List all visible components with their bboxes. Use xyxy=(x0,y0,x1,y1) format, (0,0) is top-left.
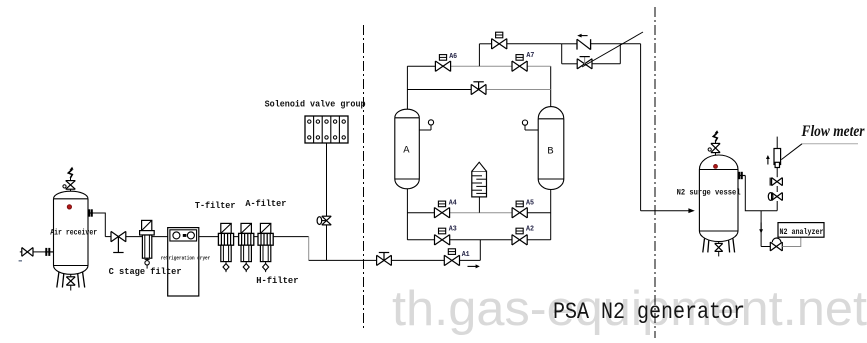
valve solenoid pilot valve xyxy=(317,216,331,225)
wire main line filter train xyxy=(126,236,309,238)
arrow flow down to analyzer xyxy=(759,229,763,233)
diagonal annotation line xyxy=(582,32,643,67)
svg-text:Flow meter: Flow meter xyxy=(801,123,866,140)
tower B xyxy=(538,107,564,190)
filter A-filter xyxy=(239,223,254,272)
tower A xyxy=(395,109,420,189)
svg-text:Solenoid valve group: Solenoid valve group xyxy=(265,99,366,110)
muffler xyxy=(472,162,487,213)
tower A pressure gauge xyxy=(419,120,433,130)
valve A7 xyxy=(512,52,534,72)
wire outlet elbow xyxy=(93,213,105,237)
wire tower A riser xyxy=(406,66,408,109)
safety valve on air receiver xyxy=(63,167,75,191)
svg-text:H-filter: H-filter xyxy=(256,275,298,286)
svg-text:T-filter: T-filter xyxy=(195,200,236,211)
pressure gauge dot on N2 surge vessel xyxy=(714,165,718,169)
filter H-filter xyxy=(258,223,273,272)
valve vent valve top xyxy=(492,32,507,49)
wire outlet down to header xyxy=(745,176,777,211)
svg-text:A5: A5 xyxy=(526,199,534,207)
flange N2 surge vessel outlet xyxy=(738,172,745,179)
filter C stage filter xyxy=(140,220,155,268)
vessel N2 surge vessel xyxy=(699,155,738,242)
valve A4 xyxy=(434,199,457,218)
valve flowmeter needle valve xyxy=(770,178,782,186)
wire product line into N2 surge vessel xyxy=(641,210,689,212)
wire analyzer branch xyxy=(760,211,762,247)
wire tower B downcomer xyxy=(550,190,552,240)
wire tower B riser xyxy=(550,66,552,106)
svg-text:A1: A1 xyxy=(462,251,471,259)
air receiver legs xyxy=(57,272,85,288)
tower B pressure gauge xyxy=(522,120,538,130)
valve A1 xyxy=(444,249,470,266)
wire parallel branch right junction xyxy=(619,44,621,64)
vessel air receiver xyxy=(54,191,89,274)
wire globe valve to right junction xyxy=(592,63,620,65)
flow meter leader line xyxy=(781,144,858,160)
wire inlet line xyxy=(20,251,22,253)
wire top line to product drop xyxy=(620,43,640,45)
valve A2 xyxy=(512,226,534,245)
valve A6 xyxy=(435,53,457,72)
check valve xyxy=(577,34,591,50)
valve feed gate valve xyxy=(377,253,392,266)
wire row1 line xyxy=(407,212,434,214)
svg-text:B: B xyxy=(547,146,553,158)
svg-text:C stage filter: C stage filter xyxy=(109,266,182,277)
flange air receiver inlet xyxy=(45,248,54,256)
wire check valve to right junction xyxy=(591,43,621,45)
valve V-inlet xyxy=(22,248,33,257)
valve A5 xyxy=(512,199,534,218)
valve flowmeter ball valve xyxy=(768,193,782,201)
svg-text:Air receiver: Air receiver xyxy=(50,228,97,238)
valve A3 xyxy=(435,226,457,245)
valve bypass globe valve xyxy=(577,57,592,69)
svg-text:A6: A6 xyxy=(449,53,457,61)
arrow flow direction after A1 xyxy=(468,264,480,268)
wire drop from filter train to feed line xyxy=(308,237,310,261)
boundary dash-dot line right xyxy=(654,7,656,338)
wire flowmeter branch vertical xyxy=(776,201,778,211)
wire A6-A7 line xyxy=(407,65,435,67)
wire feed line xyxy=(309,259,377,261)
refrigeration dryer xyxy=(168,228,199,296)
valve equalization gate valve xyxy=(471,82,486,95)
wire equalization line xyxy=(407,89,471,91)
solenoid valve group box xyxy=(305,116,348,143)
flange air receiver outlet xyxy=(88,209,93,216)
valve analyzer diaphragm valve xyxy=(761,238,782,251)
N2 analyzer box xyxy=(778,223,824,238)
wire row2 line xyxy=(407,239,434,241)
svg-text:A3: A3 xyxy=(449,226,457,234)
svg-text:A-filter: A-filter xyxy=(245,198,286,209)
svg-text:PSA N2 generator: PSA N2 generator xyxy=(553,299,745,325)
wire feed riser to row2 xyxy=(479,240,481,261)
wire riser junction to top line xyxy=(478,44,480,66)
wire parallel branch left junction xyxy=(561,44,563,64)
N2 surge vessel drain valve xyxy=(715,242,723,257)
valve C-stage inlet gate valve xyxy=(105,231,126,252)
safety valve on N2 surge vessel xyxy=(708,130,720,155)
pressure gauge dot on air receiver xyxy=(67,205,71,209)
wire analyzer connection xyxy=(782,237,801,246)
svg-text:A4: A4 xyxy=(449,199,458,207)
svg-text:refrigeration dryer: refrigeration dryer xyxy=(161,256,211,262)
filter T-filter xyxy=(218,223,233,272)
svg-text:A7: A7 xyxy=(526,52,534,60)
svg-text:A: A xyxy=(403,145,410,157)
svg-text:A2: A2 xyxy=(526,226,534,234)
svg-text:N2 surge vessel: N2 surge vessel xyxy=(677,188,741,198)
wire tower A downcomer xyxy=(406,189,408,240)
arrow flow up at flowmeter xyxy=(766,155,770,165)
boundary dash-dot line left xyxy=(363,25,365,331)
N2 surge vessel legs xyxy=(703,239,735,253)
flow meter rotameter xyxy=(774,137,781,168)
wire top product line xyxy=(479,43,491,45)
wire solenoid group stem xyxy=(326,143,328,216)
svg-text:N2 analyzer: N2 analyzer xyxy=(780,227,824,237)
air receiver drain valve xyxy=(66,274,75,290)
wire product drop line xyxy=(640,44,642,211)
